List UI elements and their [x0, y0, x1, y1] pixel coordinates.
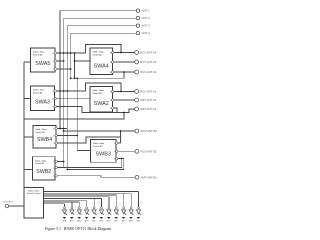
antenna load symbol 6 [99, 204, 104, 223]
wire long over-route B row 131 [64, 130, 136, 132]
terminal RCV ANT A4-1 [135, 51, 139, 55]
svg-text:XMT ANT A1: XMT ANT A1 [140, 107, 157, 111]
wire SWA2 pin2 to terminal [114, 99, 135, 101]
svg-text:ANT 2: ANT 2 [142, 16, 150, 20]
wire SWB3 pin3 stub [118, 158, 124, 160]
antenna load symbol 8 [114, 204, 119, 223]
svg-text:Switch Control: Switch Control [27, 192, 41, 195]
svg-text:J2: J2 [52, 98, 54, 100]
terminal RCV ANT A4-3 [135, 70, 139, 74]
junction dot row 69 [70, 68, 72, 70]
svg-text:Solid - State: Solid - State [36, 128, 48, 131]
antenna load symbol 10 [129, 204, 134, 223]
svg-text:ANT 1: ANT 1 [142, 9, 150, 13]
svg-text:J3: J3 [53, 143, 55, 145]
wire bus drop to load 10 [130, 193, 132, 207]
svg-text:RCV ANT A1: RCV ANT A1 [140, 90, 157, 94]
svg-text:SWB4: SWB4 [37, 137, 52, 143]
wire vertical bus V6 [76, 78, 78, 150]
pin SWA5-3 [55, 68, 57, 70]
wire vertical bus V2 [63, 18, 65, 161]
wire vertical bus V5 [74, 53, 76, 78]
terminal J1 [136, 9, 139, 12]
pin SWA5-2 [55, 60, 57, 62]
wire vertical bus V1 [59, 11, 61, 129]
svg-text:Switch A3: Switch A3 [33, 91, 43, 94]
terminal XMT ANT B [135, 175, 139, 179]
svg-text:Switch A4: Switch A4 [93, 53, 103, 56]
svg-text:Solid - State: Solid - State [33, 89, 45, 92]
antenna load symbol 11 [136, 204, 141, 223]
svg-text:J3: J3 [53, 69, 55, 71]
svg-text:J1: J1 [53, 161, 55, 163]
wire under-route below SWA2 [82, 107, 110, 113]
pin SWA2-1 [112, 90, 114, 92]
wire row SWA5 pin3 [57, 68, 71, 70]
svg-text:CONTROL: CONTROL [3, 202, 14, 204]
solid state switch SWB3 [91, 140, 117, 163]
svg-text:Switch B2: Switch B2 [35, 162, 45, 165]
svg-text:Switch A2: Switch A2 [93, 92, 103, 95]
antenna symbols row [62, 204, 141, 223]
terminal J3 [136, 24, 139, 27]
antenna load symbol 3 [77, 204, 82, 223]
svg-text:Solid - State: Solid - State [93, 89, 105, 92]
wire control bus line 6 [44, 199, 87, 201]
svg-text:Solid - State: Solid - State [93, 51, 105, 54]
solid state switch control block [24, 188, 44, 219]
wire control stub SWB2 [24, 169, 33, 171]
svg-text:J2: J2 [53, 168, 55, 170]
svg-text:RCV ANT B4: RCV ANT B4 [141, 129, 158, 133]
pin SWA4-3 [112, 71, 114, 73]
wire row SWA3 pin2 to SWA2 input [56, 98, 90, 100]
svg-text:J1: J1 [53, 53, 55, 55]
wire SWA4 pin1 to terminal [114, 52, 135, 54]
wire control feed row 119 [24, 113, 124, 120]
svg-text:J1: J1 [110, 91, 112, 93]
svg-text:Solid - State: Solid - State [35, 159, 47, 162]
svg-text:ANT 3: ANT 3 [142, 24, 150, 28]
wire control bus line 7 [44, 201, 80, 203]
wire row SWB2 pin1 stub [57, 161, 63, 163]
wire row SWB2 pin3 to terminal [57, 176, 135, 178]
wire SWA4 pin2 to terminal [114, 61, 135, 63]
wire under-route below SWA4 [71, 72, 124, 78]
svg-text:J2: J2 [114, 151, 116, 153]
svg-text:J1: J1 [52, 91, 54, 93]
wire row SWA3 pin1 crossbar [56, 90, 85, 92]
svg-text:Solid - State: Solid - State [93, 142, 105, 145]
wire row SWA5 pin1 crossbar [57, 52, 86, 54]
terminal J2 [136, 16, 139, 19]
wire feed to SWA4 input [75, 60, 91, 62]
svg-text:J1: J1 [114, 143, 116, 145]
svg-text:SWA4: SWA4 [94, 63, 109, 69]
svg-text:J3: J3 [114, 158, 116, 160]
wire row SWB4 pin1 [57, 128, 67, 130]
wire SWA4 pin3 to terminal [114, 71, 135, 73]
wire bus drop to load 9 [123, 193, 125, 207]
terminal RCV ANT A4-2 [135, 60, 139, 64]
wire control bus line 1 [44, 191, 139, 193]
antenna load symbol 4 [85, 204, 90, 223]
svg-text:XMT ANT B1: XMT ANT B1 [141, 175, 158, 179]
wire bus drop to load 6 [101, 199, 103, 207]
solid state switch SWA3 [31, 86, 55, 111]
antenna load symbol 2 [70, 204, 75, 223]
terminal RCV ANT A2-3 [135, 107, 139, 111]
svg-text:J3: J3 [53, 175, 55, 177]
svg-text:SWB3: SWB3 [96, 151, 111, 157]
control input terminal [5, 204, 9, 208]
wire SWB3 pin1 stub [118, 142, 121, 144]
wire over-route above SWA2 [86, 83, 122, 92]
svg-text:SWA2: SWA2 [94, 101, 109, 107]
svg-text:J3: J3 [52, 106, 54, 108]
wire control bus line 5 [44, 198, 102, 200]
wire to antenna terminal 4 [71, 32, 137, 34]
control bus fan-out wires [44, 192, 139, 207]
pin SWB2-2 [55, 166, 57, 168]
solid state switch SWB4 [33, 126, 56, 149]
pin SWB2-1 [55, 160, 57, 162]
pin SWB3-2 [116, 150, 118, 152]
pin SWA5-1 [55, 52, 57, 54]
wire bus drop to load 5 [93, 199, 95, 207]
wire bus drop to load 1 [64, 204, 66, 207]
terminal RCV ANT A2-2 [135, 98, 139, 102]
svg-text:J2: J2 [110, 62, 112, 64]
svg-text:ANT 4: ANT 4 [142, 31, 150, 35]
svg-text:Switch B3: Switch B3 [93, 145, 103, 148]
wire row SWB4 pin2 to SWB3 input [57, 135, 77, 137]
wire row SWA5 pin2 to SWA4 input [57, 60, 64, 62]
wire control bus vertical left [23, 62, 25, 188]
pin number labels [52, 52, 116, 177]
wire bus drop to load 7 [108, 197, 110, 207]
solid state switch SWA2 [90, 87, 113, 113]
svg-text:J1: J1 [110, 52, 112, 54]
svg-text:J1: J1 [53, 128, 55, 130]
wire riser joins row131 [120, 131, 122, 143]
terminal RCV ANT B2 [135, 149, 139, 153]
svg-text:J2: J2 [53, 61, 55, 63]
wire to antenna terminal 2 [64, 17, 137, 19]
pin SWA4-2 [112, 61, 114, 63]
svg-text:RCV ANT B2: RCV ANT B2 [141, 149, 158, 153]
wire row SWB4 pin3 over-route to SWB3 [57, 137, 120, 143]
solid state switch SWB2 [33, 157, 56, 180]
wire to antenna terminal 1 [60, 10, 136, 12]
wire control input [9, 205, 24, 207]
pin SWA3-2 [54, 97, 56, 99]
pin SWB4-2 [55, 134, 57, 136]
wire control bus line 2 [44, 192, 132, 194]
antenna load symbol 5 [92, 204, 97, 223]
wire control bus line 4 [44, 196, 109, 198]
wire bus drop to load 8 [115, 195, 117, 207]
svg-text:Solid - State: Solid - State [33, 51, 45, 54]
wire control stub SWA3 [24, 98, 31, 100]
pin SWB4-1 [55, 127, 57, 129]
svg-text:J2: J2 [53, 135, 55, 137]
wire control stub SWA5 [24, 61, 31, 63]
pin SWB3-1 [116, 142, 118, 144]
solid state switch SWA5 [31, 48, 56, 72]
svg-text:J3: J3 [110, 108, 112, 110]
pin SWB3-3 [116, 157, 118, 159]
wire row SWA3 pin3 [56, 106, 82, 108]
svg-text:J3: J3 [110, 72, 112, 74]
wire SWB3 J3 to SWB2 J1 under-route [64, 159, 122, 168]
svg-text:RCV ANT A2: RCV ANT A2 [140, 70, 157, 74]
solid state switch SWA4 [90, 48, 113, 75]
pin SWA3-1 [54, 90, 56, 92]
wire control stub SWB4 [24, 136, 33, 138]
svg-text:J2: J2 [110, 100, 112, 102]
wire vertical bus V3 [66, 26, 68, 170]
svg-text:RCV ANT A4: RCV ANT A4 [140, 51, 157, 55]
pin SWA2-3 [112, 107, 114, 109]
svg-text:Switch B4: Switch B4 [36, 131, 46, 134]
pin SWA3-3 [54, 105, 56, 107]
pin SWB4-3 [55, 142, 57, 144]
svg-text:Figure 5.1 R5000 OPT11 Block: Figure 5.1 R5000 OPT11 Block Diagram [45, 227, 111, 231]
antenna load symbol 1 [62, 204, 67, 223]
terminal RCV ANT B1 [135, 129, 139, 133]
wire bus drop to load 11 [138, 192, 140, 207]
svg-text:SWA5: SWA5 [35, 61, 50, 67]
pin SWA2-2 [112, 99, 114, 101]
wire over-route above SWA4 [86, 45, 122, 54]
pin SWA4-1 [112, 51, 114, 53]
pin SWB2-3 [55, 175, 57, 177]
wire bus drop to load 4 [86, 200, 88, 207]
wire to antenna terminal 3 [67, 25, 136, 27]
svg-text:Solid - State: Solid - State [28, 189, 40, 192]
wire SWA2 pin3 jog [114, 108, 117, 113]
wire SWA2 pin1 to terminal [114, 91, 135, 93]
terminal RCV ANT A2-1 [135, 90, 139, 94]
wire control bus line 8 [44, 203, 65, 205]
svg-text:Switch A5: Switch A5 [33, 53, 43, 56]
svg-text:SWA3: SWA3 [35, 99, 50, 105]
wire jog to SWB3 input [77, 150, 90, 152]
junction dots row 53 [59, 52, 61, 54]
antenna load symbol 9 [122, 204, 127, 223]
wire control bus line 3 [44, 194, 117, 196]
svg-text:SWB2: SWB2 [36, 169, 51, 175]
svg-text:XMT ANT A2: XMT ANT A2 [140, 98, 157, 102]
svg-text:RCV ANT A3: RCV ANT A3 [140, 60, 157, 64]
wire bus drop to load 2 [71, 202, 73, 207]
wire SWB3 J3 to SWB2 J2 under-route [57, 159, 123, 170]
wire SWB3 pin2 to terminal [118, 150, 135, 152]
terminal J4 [136, 31, 139, 34]
antenna load symbol 7 [107, 204, 112, 223]
wire vertical bus V4 [70, 33, 72, 78]
wire bus drop to load 3 [78, 202, 80, 207]
